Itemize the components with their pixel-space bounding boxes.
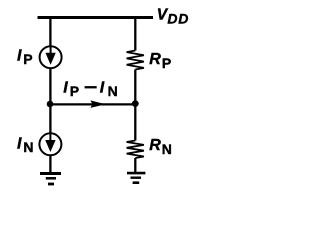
VDD rail [38, 16, 154, 19]
svg-text:D: D [167, 11, 177, 27]
ground (left) [40, 174, 61, 185]
svg-text:N: N [108, 83, 118, 99]
ground (right) [127, 173, 145, 183]
svg-text:D: D [178, 11, 188, 27]
resistor RP [127, 51, 144, 70]
wire IP source to node A [49, 68, 51, 104]
svg-text:P: P [23, 51, 32, 67]
svg-text:N: N [162, 141, 172, 157]
svg-text:I: I [100, 80, 105, 97]
current source IN [39, 133, 61, 155]
wire rail to IP source [49, 17, 51, 46]
svg-text:P: P [70, 83, 79, 99]
wire IN source to ground [49, 155, 51, 172]
wire node A to node B [50, 103, 135, 105]
svg-text:R: R [149, 137, 161, 154]
wire rail to RP [134, 17, 136, 51]
svg-text:P: P [162, 55, 171, 71]
wire node B to RN [134, 104, 136, 141]
svg-text:I: I [17, 48, 22, 65]
wire node A to IN source [49, 104, 51, 134]
svg-text:I: I [63, 80, 68, 97]
svg-text:N: N [23, 139, 33, 155]
wire RN to ground [134, 158, 136, 172]
node A junction dot [47, 101, 54, 108]
svg-text:I: I [17, 136, 22, 153]
current direction arrowhead [90, 100, 105, 108]
current source IP [40, 46, 62, 68]
resistor RN [127, 141, 144, 159]
svg-text:R: R [149, 51, 161, 68]
node B junction dot [132, 100, 139, 107]
wire RP to node B [134, 70, 136, 105]
